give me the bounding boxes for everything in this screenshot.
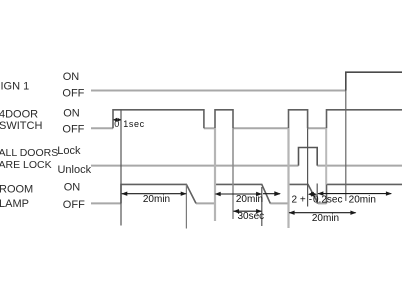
svg-text:-: - [309,194,312,205]
dimension 20min arrow 1 [121,192,186,196]
dimension 2sec inward arrow pair [308,192,317,197]
dimension 20min arrow 2 [215,192,262,196]
wire IGN1 rise and ON [346,72,402,90]
svg-text:OFF: OFF [63,199,85,211]
wire unlock baseline left [91,165,299,167]
guideline x=345.8 [345,91,347,202]
guideline at door open +0.1s x=121 [120,110,122,226]
guideline x=215 [214,128,216,221]
wire unlock baseline right [317,165,402,167]
svg-text:0: 0 [114,119,119,129]
svg-text:20min: 20min [312,213,339,224]
wire lamp pulse 4 [327,184,402,203]
guideline x=307.6 [307,128,309,206]
guideline x=186 (lamp dim start) [185,184,187,228]
svg-text:1sec: 1sec [123,119,144,129]
guideline x=262 [261,187,263,226]
svg-text:4DOOR: 4DOOR [0,108,38,120]
svg-text:20min: 20min [236,194,263,205]
dimension 20min arrow top right [317,191,392,195]
svg-text:OFF: OFF [62,124,84,136]
label ALL DOORS ARE LOCK [0,147,58,171]
dimension 0.1sec arrow [113,118,121,122]
wire door pulse 4 [327,110,402,129]
svg-text:0.2sec: 0.2sec [313,194,342,205]
label 4DOOR SWITCH [0,108,42,132]
wire lamp OFF baseline segments [91,202,327,204]
svg-text:ROOM: ROOM [0,184,33,196]
wire door OFF baseline segments [91,127,327,129]
svg-text:Lock: Lock [57,145,81,157]
svg-text:SWITCH: SWITCH [0,120,42,132]
svg-text:Unlock: Unlock [57,164,91,176]
wire lamp pulse 1 with dim ramp [121,184,196,203]
guideline x=233 [232,128,234,219]
svg-text:OFF: OFF [62,88,84,100]
dimension 20min arrow bottom right [289,211,357,215]
svg-text:20min: 20min [349,195,376,206]
wire lamp pulse 3 with dim ramp [289,184,319,203]
label ROOM LAMP [0,184,33,211]
wire lock pulse [299,148,318,166]
svg-text:20min: 20min [143,194,170,205]
guideline x=317.2 [316,184,318,204]
svg-text:ARE LOCK: ARE LOCK [0,159,52,171]
svg-text:LAMP: LAMP [0,198,29,210]
svg-text:ALL DOORS: ALL DOORS [0,147,58,159]
wire door pulse 3 [289,110,308,129]
wire IGN1 OFF baseline [91,90,346,92]
wire door pulse 2 [215,110,233,129]
dimension 30sec arrow [233,209,262,213]
guideline x=326.2 [325,128,327,184]
svg-text:ON: ON [63,71,80,83]
wire lamp pulse 2 with dim ramp [215,184,270,203]
svg-text:2 +: 2 + [292,194,306,205]
svg-text:IGN 1: IGN 1 [1,80,30,92]
guideline x=288.5 [287,128,289,228]
svg-text:30sec: 30sec [237,211,264,222]
svg-text:ON: ON [63,108,80,120]
dimension short right arrow [263,191,281,196]
wire door pulse 1 [113,110,204,129]
svg-text:ON: ON [64,181,81,193]
